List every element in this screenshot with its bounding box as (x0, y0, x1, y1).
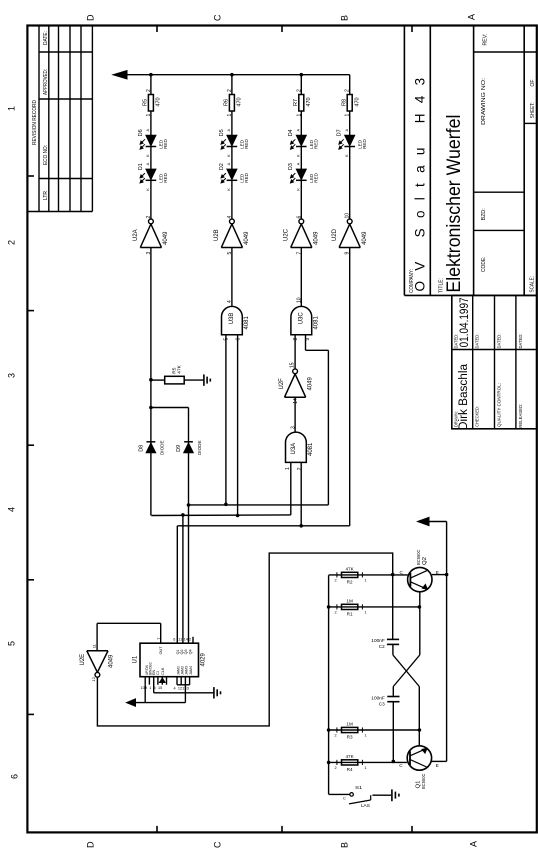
svg-text:D5: D5 (219, 129, 225, 136)
svg-text:C: C (213, 841, 223, 848)
svg-text:JAM4: JAM4 (189, 666, 193, 675)
svg-text:U2D: U2D (332, 228, 338, 241)
svg-text:RED: RED (314, 139, 319, 149)
svg-text:2: 2 (146, 216, 152, 219)
svg-text:DRAWING NO:: DRAWING NO: (481, 78, 487, 125)
svg-text:1: 1 (227, 114, 233, 117)
svg-text:6: 6 (296, 216, 302, 219)
svg-text:2: 2 (227, 89, 233, 92)
svg-text:3: 3 (290, 426, 296, 429)
svg-text:8: 8 (293, 338, 299, 341)
svg-text:ECO NO:: ECO NO: (43, 145, 49, 165)
svg-text:U1: U1 (132, 655, 138, 663)
svg-text:R8: R8 (342, 99, 348, 106)
svg-text:4049: 4049 (362, 231, 368, 245)
svg-text:U2F: U2F (279, 378, 285, 390)
svg-text:APPROVED:: APPROVED: (43, 69, 49, 95)
svg-text:A: A (226, 129, 231, 132)
svg-text:RED: RED (362, 139, 367, 149)
svg-text:1: 1 (296, 114, 302, 117)
svg-text:2: 2 (345, 89, 351, 92)
svg-text:CHECKED:: CHECKED: (475, 406, 480, 427)
svg-text:1: 1 (7, 106, 17, 111)
svg-text:D7: D7 (337, 129, 343, 136)
svg-text:D1: D1 (138, 163, 144, 170)
svg-text:DATED:: DATED: (518, 334, 523, 349)
svg-text:K: K (296, 188, 301, 191)
svg-text:1M: 1M (346, 721, 353, 726)
svg-text:RED: RED (314, 172, 319, 182)
svg-text:6: 6 (236, 338, 242, 341)
svg-text:D2: D2 (219, 163, 225, 170)
svg-text:R3: R3 (347, 735, 353, 740)
svg-text:1: 1 (365, 733, 367, 737)
svg-text:RED: RED (163, 139, 168, 149)
svg-text:4049: 4049 (307, 376, 313, 390)
svg-text:2: 2 (7, 240, 17, 245)
svg-text:RED: RED (244, 139, 249, 149)
svg-text:9: 9 (145, 686, 147, 690)
svg-text:47K: 47K (176, 364, 182, 373)
svg-text:470: 470 (306, 97, 312, 106)
svg-text:6: 6 (10, 774, 20, 779)
svg-text:D6: D6 (138, 129, 144, 136)
svg-text:2: 2 (335, 610, 337, 614)
svg-text:U2A: U2A (133, 229, 139, 241)
svg-text:D9: D9 (176, 445, 182, 452)
svg-text:15: 15 (158, 686, 162, 690)
svg-text:4029: 4029 (201, 652, 207, 666)
svg-text:R6: R6 (224, 99, 230, 106)
svg-text:K: K (145, 154, 150, 157)
svg-text:10: 10 (141, 686, 145, 690)
svg-text:1: 1 (146, 114, 152, 117)
svg-text:R7: R7 (293, 99, 299, 106)
svg-text:C3: C3 (379, 702, 385, 707)
svg-text:U3A: U3A (291, 443, 297, 455)
svg-text:D4: D4 (288, 129, 294, 136)
svg-text:470: 470 (156, 97, 162, 106)
svg-text:CLK: CLK (161, 667, 165, 675)
svg-text:OV Soltau H43: OV Soltau H43 (412, 68, 427, 292)
svg-text:2: 2 (146, 89, 152, 92)
svg-text:4081: 4081 (308, 442, 314, 456)
svg-text:100nF: 100nF (371, 696, 385, 701)
svg-text:3: 3 (187, 687, 189, 691)
svg-text:RED: RED (244, 172, 249, 182)
svg-text:DIODE: DIODE (197, 440, 202, 455)
svg-text:2: 2 (335, 578, 337, 582)
svg-text:4: 4 (174, 687, 176, 691)
svg-text:QUALITY CONTROL:: QUALITY CONTROL: (496, 383, 501, 427)
svg-text:Q4: Q4 (188, 649, 192, 654)
svg-text:U2E: U2E (80, 654, 86, 666)
svg-text:10: 10 (345, 213, 351, 219)
svg-text:A: A (469, 841, 479, 847)
svg-text:R2: R2 (347, 580, 353, 585)
svg-text:2: 2 (335, 733, 337, 737)
svg-text:DATED:: DATED: (496, 333, 501, 348)
svg-text:OF: OF (530, 80, 536, 87)
svg-text:REVISION RECORD: REVISION RECORD (32, 100, 38, 145)
svg-text:4049: 4049 (244, 231, 250, 245)
svg-text:R5: R5 (143, 99, 149, 106)
svg-text:RED: RED (163, 172, 168, 182)
svg-text:CI: CI (156, 671, 160, 675)
svg-text:4: 4 (227, 216, 233, 219)
svg-text:D8: D8 (139, 445, 145, 452)
svg-text:A: A (296, 129, 301, 132)
svg-text:47K: 47K (346, 566, 355, 571)
svg-text:47K: 47K (346, 754, 355, 759)
svg-text:1: 1 (365, 610, 367, 614)
svg-text:5: 5 (7, 641, 17, 646)
svg-text:470: 470 (237, 97, 243, 106)
svg-text:B: B (340, 15, 350, 21)
svg-text:2: 2 (189, 638, 191, 642)
svg-text:4081: 4081 (244, 315, 250, 329)
svg-text:2: 2 (335, 766, 337, 770)
svg-text:4049: 4049 (163, 231, 169, 245)
svg-text:5: 5 (224, 338, 230, 341)
svg-text:A: A (145, 162, 150, 165)
svg-text:4: 4 (7, 507, 17, 512)
svg-text:14: 14 (184, 638, 188, 642)
svg-text:SCALE:: SCALE: (530, 276, 536, 293)
svg-text:Q1: Q1 (415, 781, 421, 789)
svg-text:CODE:: CODE: (481, 257, 487, 273)
svg-text:DATED:: DATED: (475, 334, 480, 349)
svg-text:U2C: U2C (283, 228, 289, 241)
svg-text:U3C: U3C (299, 312, 305, 325)
svg-text:K: K (344, 154, 349, 157)
svg-text:B: B (340, 842, 350, 848)
svg-text:4081: 4081 (314, 315, 320, 329)
svg-text:BZD:: BZD: (481, 208, 487, 220)
svg-text:K: K (145, 188, 150, 191)
svg-text:Dirk Baschla: Dirk Baschla (458, 363, 470, 430)
svg-text:R1: R1 (347, 612, 353, 617)
svg-text:RELEASED:: RELEASED: (518, 404, 523, 428)
svg-text:100nF: 100nF (371, 638, 385, 643)
svg-text:LTR: LTR (43, 191, 49, 200)
svg-text:5: 5 (154, 686, 156, 690)
svg-text:Elektronischer Wuerfel: Elektronischer Wuerfel (443, 115, 465, 293)
svg-text:A: A (467, 14, 477, 20)
svg-text:R4: R4 (347, 767, 353, 772)
svg-text:470: 470 (354, 97, 360, 106)
svg-text:4049: 4049 (109, 654, 115, 668)
svg-text:DATED:: DATED: (454, 334, 459, 349)
svg-text:U3B: U3B (229, 313, 235, 325)
svg-text:1: 1 (365, 766, 367, 770)
svg-text:C2: C2 (379, 644, 385, 649)
svg-text:1: 1 (365, 578, 367, 582)
svg-text:A: A (226, 162, 231, 165)
svg-text:1M: 1M (346, 598, 353, 603)
svg-text:A: A (296, 162, 301, 165)
svg-text:1: 1 (345, 114, 351, 117)
svg-text:2: 2 (296, 89, 302, 92)
svg-text:C: C (213, 14, 223, 21)
svg-text:U2B: U2B (214, 229, 220, 241)
svg-text:A: A (344, 129, 349, 132)
svg-text:2: 2 (297, 467, 303, 470)
svg-text:E: E (436, 763, 439, 768)
svg-text:A: A (145, 129, 150, 132)
svg-text:REV:: REV: (483, 34, 489, 46)
svg-text:OUT: OUT (159, 646, 163, 655)
svg-text:3: 3 (7, 373, 17, 378)
svg-text:11: 11 (178, 638, 182, 642)
svg-text:SHEET:: SHEET: (530, 102, 536, 118)
svg-text:S1: S1 (355, 785, 363, 790)
svg-text:D: D (86, 841, 96, 848)
svg-text:1: 1 (149, 686, 151, 690)
svg-text:D: D (86, 14, 96, 21)
svg-text:Q2: Q2 (422, 557, 428, 565)
svg-text:K: K (226, 154, 231, 157)
svg-text:K: K (226, 188, 231, 191)
svg-text:01.04.1997: 01.04.1997 (459, 297, 471, 347)
svg-text:BC550C: BC550C (421, 773, 427, 789)
svg-text:6: 6 (173, 638, 175, 642)
svg-text:4049: 4049 (313, 231, 319, 245)
svg-text:C: C (343, 797, 346, 801)
svg-text:K: K (296, 154, 301, 157)
svg-text:DIODE: DIODE (160, 440, 165, 455)
svg-text:12: 12 (91, 676, 96, 681)
svg-text:DATE:: DATE: (43, 31, 49, 45)
svg-text:D3: D3 (288, 163, 294, 170)
svg-text:LAS: LAS (361, 803, 370, 808)
